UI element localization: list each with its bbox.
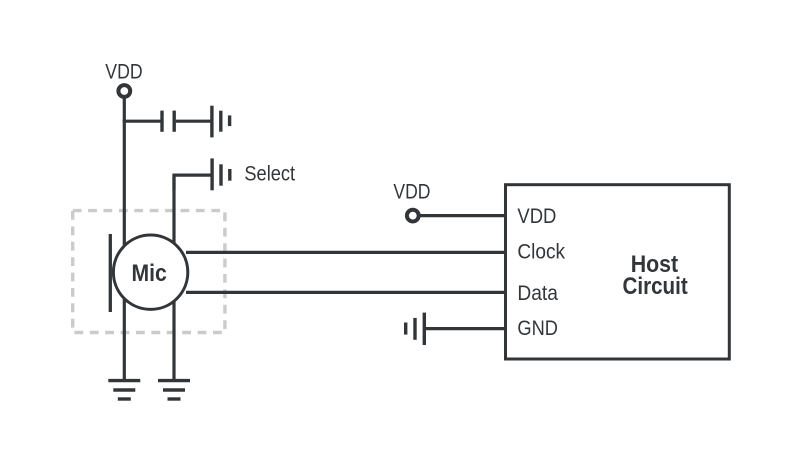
wire capacitor C1 to ground: [176, 120, 212, 123]
svg-text:VDD: VDD: [393, 181, 430, 204]
svg-text:Mic: Mic: [132, 260, 167, 287]
wire VDD vertical down to ground: [123, 98, 126, 381]
wire Select stub: [174, 175, 211, 190]
terminal VDD (mic): [118, 85, 130, 97]
mic package boundary (dashed): [73, 211, 225, 333]
host circuit U1 box: [506, 185, 730, 359]
wire Data (mic to host): [186, 291, 506, 294]
ground (mic VDD return): [108, 381, 140, 399]
wire Clock (mic to host): [186, 251, 506, 254]
microphone MK1 membrane: [109, 234, 112, 312]
wire VDD terminal to host: [419, 214, 505, 217]
label Host Circuit: [623, 251, 688, 300]
svg-text:VDD: VDD: [517, 205, 556, 228]
svg-text:Clock: Clock: [517, 241, 565, 264]
svg-text:Select: Select: [244, 162, 295, 185]
ground (Select return): [158, 381, 190, 399]
microphone MK1 body: [113, 235, 187, 309]
ground (Select tie-low, pointing right): [212, 158, 230, 190]
svg-text:VDD: VDD: [105, 60, 142, 83]
svg-text:Circuit: Circuit: [623, 273, 688, 300]
wire VDD to capacitor C1: [123, 120, 161, 123]
ground (decoupling cap return, pointing right): [212, 106, 230, 138]
capacitor C1 (decoupling): [162, 111, 174, 132]
wire ground to host GND pin: [425, 327, 506, 330]
svg-text:GND: GND: [517, 317, 558, 340]
wire Select vertical down to ground: [172, 175, 175, 381]
svg-text:Data: Data: [517, 282, 558, 305]
ground (host GND, pointing left): [406, 313, 425, 345]
terminal VDD (host): [407, 210, 419, 222]
